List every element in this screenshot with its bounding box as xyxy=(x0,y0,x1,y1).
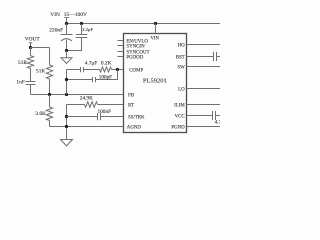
resistor R4 0.2K (comp) xyxy=(100,67,112,72)
wire comp branch to COMP pin xyxy=(112,69,124,71)
svg-text:VIN: VIN xyxy=(151,37,160,42)
node AGND line ground junction xyxy=(65,125,68,128)
svg-text:SYNCIN: SYNCIN xyxy=(126,44,145,49)
svg-text:HO: HO xyxy=(178,43,186,48)
node 51K/3.6K FB junction xyxy=(48,93,51,96)
wire ground bus xyxy=(66,105,68,140)
node VIN rail / IC VIN pin junction xyxy=(154,22,157,25)
wire VIN input stub xyxy=(66,18,68,24)
ground (input capacitors) xyxy=(61,51,72,64)
svg-text:24.9K: 24.9K xyxy=(80,96,93,102)
svg-text:ILIM: ILIM xyxy=(174,103,185,108)
capacitor C6 100nF (soft start) xyxy=(67,113,124,120)
resistor R3 3.6K xyxy=(46,95,52,127)
capacitor C3 1nF xyxy=(26,82,36,95)
pin ILIM wire xyxy=(187,104,221,106)
pin PGND wire xyxy=(187,126,221,128)
wire 24.9K to RT pin xyxy=(98,104,124,106)
svg-text:PGND: PGND xyxy=(171,125,185,130)
svg-text:PL59201: PL59201 xyxy=(143,77,167,84)
svg-text:SW: SW xyxy=(177,65,185,70)
compensation network: comp bus wire xyxy=(66,70,68,95)
node 100pF branch junction xyxy=(65,78,68,81)
op-amp IC U1 PL59201 box xyxy=(124,34,187,133)
svg-text:LO: LO xyxy=(178,87,185,92)
svg-text:3.6K: 3.6K xyxy=(35,111,46,117)
svg-text:COMP: COMP xyxy=(129,68,143,73)
node input caps ground junction xyxy=(65,49,68,52)
resistor R1 51R xyxy=(27,48,33,82)
resistor R5 24.9K xyxy=(85,102,98,108)
svg-text:2.2µF: 2.2µF xyxy=(82,27,93,32)
wire AGND line xyxy=(50,126,124,128)
svg-text:51R: 51R xyxy=(18,60,27,66)
pin EN/UVLO stub xyxy=(118,40,124,42)
node VIN rail / C2 junction xyxy=(80,22,83,25)
pin LO wire xyxy=(187,88,221,90)
svg-text:220nF: 220nF xyxy=(49,27,63,33)
svg-text:RT: RT xyxy=(128,103,134,108)
capacitor C1 220nF (polarized, input) xyxy=(61,24,73,51)
svg-text:BST: BST xyxy=(176,55,185,60)
capacitor C4 4.7uF (comp) xyxy=(67,67,100,72)
ground (bottom) xyxy=(61,140,73,146)
capacitor C2 2.2uF (input) xyxy=(67,24,88,51)
pin SW wire xyxy=(187,66,221,68)
svg-text:0.2K: 0.2K xyxy=(101,61,112,67)
resistor R2 51K xyxy=(46,48,52,95)
svg-text:SS/TRK: SS/TRK xyxy=(128,115,145,120)
svg-text:100nF: 100nF xyxy=(98,109,112,115)
capacitor C8 4.7uF (VCC bypass) xyxy=(213,111,221,120)
wire RT line xyxy=(67,104,85,106)
underline under 15 xyxy=(64,17,69,19)
pin VCC wire xyxy=(187,115,213,117)
svg-text:PGOOD: PGOOD xyxy=(126,55,143,60)
pin SYNCIN stub xyxy=(118,45,124,47)
capacitor C5 100pF (comp) xyxy=(67,70,118,83)
svg-text:51K: 51K xyxy=(36,68,45,74)
capacitor C7 (bootstrap) xyxy=(214,52,221,61)
svg-text:VIN: VIN xyxy=(50,12,60,18)
node comp-bus FB junction xyxy=(65,93,68,96)
node VIN rail / C1 junction xyxy=(65,22,68,25)
wire FB line xyxy=(31,94,124,96)
svg-text:VOUT: VOUT xyxy=(25,36,41,42)
svg-text:15—100V: 15—100V xyxy=(64,12,87,18)
svg-text:4.7µF: 4.7µF xyxy=(215,119,220,125)
wire VIN pin drop xyxy=(155,24,157,34)
pin HO wire xyxy=(187,44,221,46)
svg-text:100pF: 100pF xyxy=(99,74,112,80)
svg-text:AGND: AGND xyxy=(127,125,142,130)
svg-text:FB: FB xyxy=(128,93,135,98)
pin SYNCOUT stub xyxy=(118,51,124,53)
pin BST wire xyxy=(187,56,214,58)
pin PGOOD stub xyxy=(118,56,124,58)
svg-text:1nF: 1nF xyxy=(16,79,24,85)
wire VOUT node to 51K xyxy=(31,47,50,49)
svg-text:VCC: VCC xyxy=(175,114,185,119)
wire top VIN rail xyxy=(67,23,221,25)
svg-text:4.7µF: 4.7µF xyxy=(85,61,97,67)
wire VOUT terminal tick xyxy=(29,43,32,48)
node SS line ground junction xyxy=(65,115,68,118)
node comp branches junction xyxy=(116,68,119,71)
node VOUT junction xyxy=(29,46,32,49)
